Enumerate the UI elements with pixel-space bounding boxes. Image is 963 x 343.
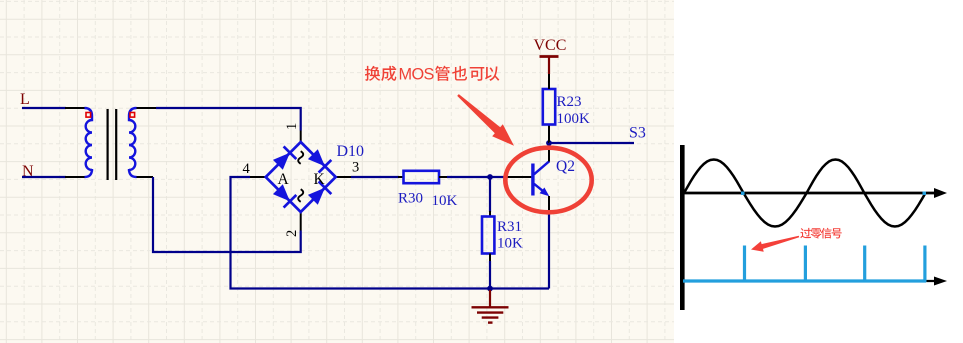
ground xyxy=(489,290,491,307)
Q2 collector diagonal xyxy=(534,161,549,174)
zero-cross tick 2 xyxy=(923,192,927,196)
wire R30 to base node xyxy=(447,176,506,178)
wire secondary bottom to bridge pin2 xyxy=(153,177,301,252)
svg-text:4: 4 xyxy=(243,161,251,177)
Q2 emitter diagonal xyxy=(534,184,546,194)
bridge diode 2-to-K xyxy=(308,188,325,205)
resistor R30 body xyxy=(404,171,440,183)
svg-text:R31: R31 xyxy=(497,219,522,235)
svg-text:R23: R23 xyxy=(557,94,582,110)
transformer primary pin top xyxy=(65,107,85,109)
bridge diode 1-to-K xyxy=(308,149,325,166)
resistor R31 body xyxy=(482,217,494,254)
bridge pin 4 stub xyxy=(250,176,266,178)
waveform y-axis xyxy=(680,145,685,310)
Q2 base pin xyxy=(505,176,531,178)
svg-text:1: 1 xyxy=(284,123,300,130)
pulse x-axis xyxy=(682,280,937,282)
svg-text:3: 3 xyxy=(352,160,359,176)
resistor R23 body xyxy=(543,89,555,125)
transformer secondary winding xyxy=(129,108,137,177)
wire bridge A to ground rail xyxy=(231,177,550,289)
svg-text:MOS: MOS xyxy=(399,66,435,84)
bridge pin 2 stub xyxy=(300,212,302,231)
wire S3 xyxy=(549,142,634,144)
R30 pin 1 xyxy=(398,176,404,178)
transformer core xyxy=(106,109,108,180)
transformer polarity dot primary xyxy=(86,113,91,118)
pulse x-axis arrowhead xyxy=(934,277,947,286)
svg-text:10K: 10K xyxy=(432,193,458,209)
svg-text:K: K xyxy=(314,171,326,188)
sine x-axis arrowhead xyxy=(934,188,947,198)
Q2 emitter pin xyxy=(548,196,550,214)
pulse 4 xyxy=(923,246,926,283)
red highlight ellipse around Q2 xyxy=(505,148,591,213)
red annotation text 换成MOS管也可以 xyxy=(365,66,499,84)
svg-text:Q2: Q2 xyxy=(556,158,575,175)
svg-text:2: 2 xyxy=(284,230,300,237)
wire N xyxy=(22,176,66,178)
svg-text:10K: 10K xyxy=(497,236,523,252)
svg-text:100K: 100K xyxy=(557,111,591,127)
transformer secondary pin bottom xyxy=(137,176,154,178)
sine x-axis xyxy=(682,192,937,195)
bridge diode A-to-2 xyxy=(273,184,290,201)
svg-text:D10: D10 xyxy=(337,143,365,160)
R31 pin 2 xyxy=(489,254,491,263)
wire secondary top to bridge pin1 xyxy=(156,108,301,131)
pulse 1 xyxy=(743,246,746,283)
bridge diode A-to-1 xyxy=(273,153,290,170)
wire R31 to ground rail xyxy=(489,261,491,289)
bridge AC symbol top xyxy=(298,151,303,164)
pulse baseline xyxy=(683,279,926,282)
R31 pin 1 xyxy=(489,211,491,217)
Q2 emitter arrowhead xyxy=(540,188,550,197)
wire bridge K to R30 xyxy=(351,176,399,178)
schematic sheet background xyxy=(0,0,674,343)
red annotation text 过零信号 xyxy=(800,228,841,239)
bridge D10 diamond xyxy=(266,142,336,212)
svg-text:R30: R30 xyxy=(398,191,423,207)
R23 pin 2 xyxy=(548,125,550,144)
transformer secondary pin top xyxy=(137,107,157,109)
Q2 base bar xyxy=(531,164,534,196)
pulse 3 xyxy=(863,246,866,283)
R23 pin 1 xyxy=(548,74,550,90)
sine waveform xyxy=(684,160,926,227)
svg-text:VCC: VCC xyxy=(534,37,567,54)
svg-text:L: L xyxy=(20,91,30,108)
svg-text:A: A xyxy=(278,171,290,188)
grid lines xyxy=(0,0,674,343)
VCC power port xyxy=(548,57,550,74)
bridge pin 3 stub xyxy=(336,176,351,178)
red pulse arrow xyxy=(751,236,799,252)
junction node base xyxy=(487,174,493,180)
junction node ground rail xyxy=(487,286,493,292)
transformer primary pin bottom xyxy=(65,176,85,178)
svg-text:S3: S3 xyxy=(629,125,646,142)
zero-cross tick 1 xyxy=(741,192,745,196)
transformer primary winding xyxy=(85,108,93,177)
junction node collector xyxy=(546,140,552,146)
Q2 collector pin xyxy=(548,143,550,162)
pulse 2 xyxy=(804,246,807,283)
wire node to R31 xyxy=(489,177,491,212)
wire emitter to ground rail xyxy=(548,213,550,289)
R30 pin 2 xyxy=(439,176,448,178)
transformer polarity dot secondary xyxy=(130,113,135,118)
wire L xyxy=(22,107,66,109)
bridge pin 1 stub xyxy=(300,131,302,143)
bridge AC symbol bottom xyxy=(298,189,303,202)
red annotation arrow xyxy=(457,94,514,146)
